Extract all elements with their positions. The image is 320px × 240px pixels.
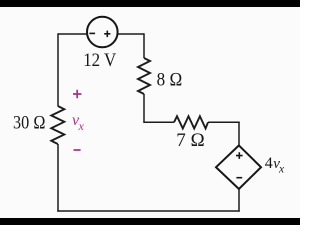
- dependent source plus sign: [236, 152, 243, 159]
- letterbox bar top: [0, 0, 300, 7]
- svg-text:30 Ω: 30 Ω: [13, 113, 46, 134]
- letterbox bar bottom: [0, 218, 300, 225]
- wire right branch upper: [238, 122, 240, 146]
- voltage source plus sign: [104, 31, 110, 37]
- voltage source minus sign: [89, 32, 95, 34]
- svg-text:8 Ω: 8 Ω: [157, 70, 183, 91]
- wire right upper branch top: [143, 33, 145, 58]
- resistor R8 zigzag: [138, 58, 150, 94]
- svg-text:x: x: [278, 164, 285, 176]
- wire left branch upper: [57, 33, 59, 106]
- wire middle-right segment: [208, 121, 240, 123]
- wire middle-left segment: [143, 121, 174, 123]
- wire right branch lower: [238, 189, 240, 212]
- svg-text:x: x: [78, 119, 85, 133]
- node vx minus polarity mark: [74, 149, 81, 151]
- svg-text:12 V: 12 V: [83, 50, 116, 71]
- svg-text:4: 4: [265, 155, 273, 172]
- wire top-left segment: [58, 33, 87, 35]
- wire top-right segment: [118, 33, 144, 35]
- resistor R30 zigzag: [51, 106, 64, 144]
- node vx plus polarity mark: [73, 90, 81, 98]
- dependent source minus sign: [236, 177, 242, 179]
- dependent source diamond: [216, 145, 261, 189]
- voltage source V1 12V circle: [87, 17, 118, 48]
- wire left branch lower: [57, 144, 59, 212]
- wire bottom segment: [57, 210, 239, 212]
- resistor R7 zigzag: [174, 116, 208, 128]
- wire right upper branch bottom: [143, 94, 145, 122]
- svg-text:7 Ω: 7 Ω: [176, 130, 205, 151]
